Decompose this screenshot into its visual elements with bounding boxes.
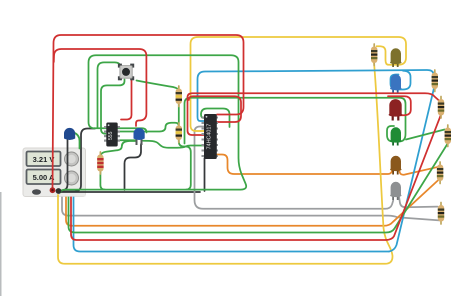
svg-text:3.21 V: 3.21 V: [33, 155, 55, 164]
svg-text:555: 555: [108, 131, 114, 140]
svg-text:5.00 A: 5.00 A: [33, 173, 55, 182]
svg-text:74HC4017: 74HC4017: [206, 124, 212, 150]
